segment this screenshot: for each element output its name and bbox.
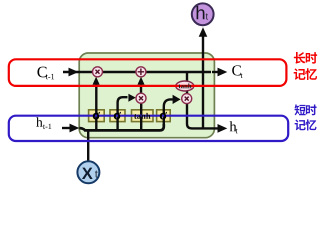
- label h_t out: [230, 121, 237, 131]
- label C_t-1: [37, 67, 46, 78]
- terminal h_t circle: [192, 3, 214, 25]
- label h_t-1: [36, 117, 42, 126]
- wire from x_t riser: [87, 130, 89, 162]
- op multiply2: [136, 93, 146, 103]
- label sigma4: [160, 112, 167, 120]
- gate sigma1 box: [89, 110, 105, 122]
- label short-term memory text line1: [295, 104, 306, 115]
- label long-term memory text line2: [294, 68, 306, 79]
- label sigma2: [114, 112, 121, 120]
- label tanh ellipse: [179, 84, 181, 88]
- label sigma1: [93, 112, 100, 120]
- op add on C line: [136, 67, 146, 77]
- op tanh ellipse: [176, 81, 194, 91]
- wire C-line: [63, 71, 211, 73]
- long-term memory red box: [9, 59, 287, 86]
- wire h riser to h_t circle: [202, 34, 204, 129]
- LSTM cell body: [79, 53, 214, 138]
- wire mult2 to add: [140, 84, 142, 94]
- arrowhead C_t output: [212, 71, 219, 73]
- gate sigma2 box: [110, 110, 125, 122]
- op multiply1 on C line: [93, 67, 103, 77]
- wire sigma2 up/curve to mult2: [118, 97, 128, 130]
- wire mult3 down and right to h outputs: [187, 103, 219, 128]
- wire C branch to tanh ellipse and mult3: [186, 72, 188, 95]
- wire h_t-1 input: [62, 127, 72, 129]
- label short-term memory text line2: [295, 120, 306, 131]
- wire sigma4 up/curve to mult3: [164, 99, 173, 126]
- wire gate bus: [79, 124, 164, 130]
- gate tanh box: [132, 110, 154, 122]
- short-term memory blue box: [9, 116, 288, 141]
- label long-term memory text line1: [294, 52, 306, 64]
- op multiply3: [182, 94, 192, 104]
- wire tanh-gate to mult2: [140, 103, 142, 131]
- wire sigma1 to mult1: [95, 83, 97, 131]
- label C_t: [232, 65, 241, 75]
- gate sigma4 box: [157, 110, 171, 122]
- arrowhead C_t-1 input: [69, 68, 79, 77]
- terminal x_t circle: [77, 161, 99, 183]
- label tanh gate: [134, 114, 137, 119]
